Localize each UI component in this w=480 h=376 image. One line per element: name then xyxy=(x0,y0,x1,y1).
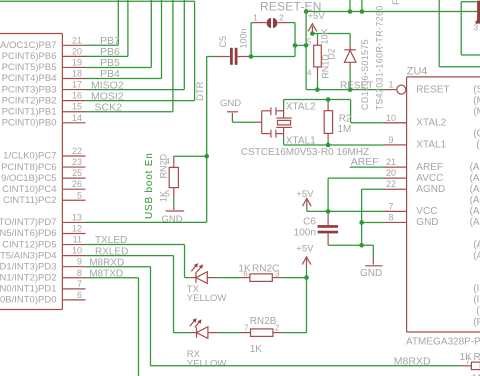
svg-text:100n: 100n xyxy=(294,227,316,238)
svg-text:7: 7 xyxy=(466,357,471,366)
svg-text:C5: C5 xyxy=(218,36,228,48)
svg-text:12: 12 xyxy=(72,223,82,233)
svg-text:AREF: AREF xyxy=(351,156,379,168)
svg-text:15: 15 xyxy=(72,102,82,112)
svg-text:18: 18 xyxy=(72,69,82,79)
svg-text:17: 17 xyxy=(72,80,82,90)
svg-text:100n: 100n xyxy=(239,28,249,48)
svg-text:C6: C6 xyxy=(303,217,316,228)
svg-text:5: 5 xyxy=(77,190,82,200)
svg-text:7: 7 xyxy=(77,279,82,289)
svg-text:9/OC1B)PC5: 9/OC1B)PC5 xyxy=(1,173,56,184)
svg-text:(P: (P xyxy=(473,317,480,328)
svg-text:TO/INT7)PD7: TO/INT7)PD7 xyxy=(0,217,57,228)
svg-text:2: 2 xyxy=(279,12,284,22)
svg-text:GND: GND xyxy=(220,98,241,109)
svg-text:ATMEGA328P-P: ATMEGA328P-P xyxy=(406,336,480,347)
svg-text:D1/INT3)PD3: D1/INT3)PD3 xyxy=(0,261,57,272)
svg-text:GND: GND xyxy=(162,214,183,225)
svg-text:4: 4 xyxy=(307,69,312,78)
svg-text:PCINT3)PB3: PCINT3)PB3 xyxy=(2,84,57,95)
svg-text:8: 8 xyxy=(77,268,82,278)
svg-text:PCINT2)PB2: PCINT2)PB2 xyxy=(2,95,57,106)
svg-text:(AD: (AD xyxy=(470,162,480,173)
svg-text:PCINT8)PC6: PCINT8)PC6 xyxy=(1,162,56,173)
svg-text:3: 3 xyxy=(473,23,478,33)
svg-text:D2: D2 xyxy=(327,48,337,60)
svg-text:(: ( xyxy=(476,140,480,151)
svg-text:(I: (I xyxy=(473,295,479,306)
svg-text:21: 21 xyxy=(72,35,82,45)
svg-text:+5V: +5V xyxy=(296,189,314,200)
svg-text:2: 2 xyxy=(275,323,280,332)
svg-text:22: 22 xyxy=(72,146,82,156)
svg-text:26: 26 xyxy=(72,179,82,189)
svg-text:N5/INT6)PD6: N5/INT6)PD6 xyxy=(0,228,57,239)
svg-text:DTR: DTR xyxy=(195,81,206,101)
svg-text:RN2B: RN2B xyxy=(250,316,277,327)
svg-text:CD1206-S01575: CD1206-S01575 xyxy=(360,39,370,110)
svg-text:20: 20 xyxy=(72,46,82,56)
svg-text:VCC: VCC xyxy=(416,206,437,217)
svg-text:N1/INT2)PD2: N1/INT2)PD2 xyxy=(0,272,57,283)
svg-text:(M: (M xyxy=(473,95,480,106)
svg-text:AVCC: AVCC xyxy=(416,173,443,184)
svg-text:(A: (A xyxy=(473,250,480,261)
svg-text:XTAL1: XTAL1 xyxy=(286,136,316,147)
svg-text:(AD: (AD xyxy=(470,173,480,184)
svg-text:6: 6 xyxy=(243,269,248,278)
svg-text:RN2D: RN2D xyxy=(158,153,168,178)
svg-text:TS42031-160R-TR-7260: TS42031-160R-TR-7260 xyxy=(375,5,385,110)
svg-text:19: 19 xyxy=(72,57,82,67)
svg-text:YELLOW: YELLOW xyxy=(187,293,227,304)
svg-text:T5/AIN3)PD4: T5/AIN3)PD4 xyxy=(0,250,57,261)
svg-text:1/CLK0)PC7: 1/CLK0)PC7 xyxy=(3,151,56,162)
svg-text:(I: (I xyxy=(473,284,479,295)
svg-text:20: 20 xyxy=(386,168,396,178)
svg-text:AREF: AREF xyxy=(416,162,443,173)
svg-text:A/OC1C)PB7: A/OC1C)PB7 xyxy=(0,40,57,51)
svg-text:9: 9 xyxy=(388,135,393,145)
svg-text:10: 10 xyxy=(72,246,82,256)
svg-text:SCK2: SCK2 xyxy=(95,101,123,113)
svg-text:0B/INT0)PD0: 0B/INT0)PD0 xyxy=(0,295,57,306)
svg-text:8: 8 xyxy=(388,212,393,222)
svg-text:F: F xyxy=(391,0,401,5)
svg-text:AGND: AGND xyxy=(416,184,445,195)
svg-text:XTAL1: XTAL1 xyxy=(416,140,446,151)
svg-text:PCINT6)PB6: PCINT6)PB6 xyxy=(2,51,57,62)
svg-text:XTAL2: XTAL2 xyxy=(286,102,316,113)
svg-text:PCINT0)PB0: PCINT0)PB0 xyxy=(2,117,57,128)
svg-text:14: 14 xyxy=(72,113,82,123)
svg-text:7: 7 xyxy=(388,201,393,211)
svg-text:(AD: (AD xyxy=(470,195,480,206)
svg-text:(: ( xyxy=(476,306,480,317)
svg-text:(AD: (AD xyxy=(470,217,480,228)
svg-text:+5V: +5V xyxy=(308,11,326,22)
svg-text:(A: (A xyxy=(473,239,480,250)
svg-text:10: 10 xyxy=(386,113,396,123)
svg-text:R2: R2 xyxy=(339,113,352,124)
svg-text:(AD: (AD xyxy=(470,184,480,195)
svg-text:25: 25 xyxy=(72,168,82,178)
svg-text:1: 1 xyxy=(388,80,393,90)
svg-text:(M: (M xyxy=(473,106,480,117)
svg-text:N0/INT1)PD1: N0/INT1)PD1 xyxy=(0,284,57,295)
svg-text:1M: 1M xyxy=(338,124,352,135)
svg-text:(AD: (AD xyxy=(470,206,480,217)
svg-text:PCINT4)PB4: PCINT4)PB4 xyxy=(2,73,57,84)
svg-text:CINT11)PC2: CINT11)PC2 xyxy=(3,195,57,206)
svg-text:+5V: +5V xyxy=(296,244,314,255)
svg-text:GND: GND xyxy=(360,268,382,279)
svg-text:1: 1 xyxy=(253,12,258,22)
svg-text:CINT10)PC4: CINT10)PC4 xyxy=(2,184,56,195)
svg-text:21: 21 xyxy=(386,157,396,167)
svg-text:1K: 1K xyxy=(250,344,263,355)
svg-text:CINT12)PD5: CINT12)PD5 xyxy=(2,239,56,250)
svg-text:RESET: RESET xyxy=(416,84,449,95)
svg-text:R: R xyxy=(474,352,480,363)
svg-text:1K: 1K xyxy=(158,191,168,202)
svg-text:GND: GND xyxy=(416,217,438,228)
svg-text:(S: (S xyxy=(473,84,480,95)
svg-text:USB boot En: USB boot En xyxy=(144,152,155,219)
svg-text:16: 16 xyxy=(72,91,82,101)
svg-text:23: 23 xyxy=(72,157,82,167)
svg-text:13: 13 xyxy=(72,212,82,222)
svg-text:ZU4: ZU4 xyxy=(407,66,428,78)
svg-text:9: 9 xyxy=(77,257,82,267)
svg-text:3: 3 xyxy=(275,269,280,278)
svg-text:7: 7 xyxy=(244,323,249,332)
svg-text:6: 6 xyxy=(77,290,82,300)
svg-text:M8RXD: M8RXD xyxy=(394,355,431,367)
svg-text:PCINT1)PB1: PCINT1)PB1 xyxy=(2,106,57,117)
svg-text:11: 11 xyxy=(73,235,82,245)
svg-text:10K: 10K xyxy=(319,28,329,44)
svg-text:5: 5 xyxy=(307,37,312,46)
svg-text:XTAL2: XTAL2 xyxy=(416,118,446,129)
svg-text:(C: (C xyxy=(473,129,480,140)
svg-text:22: 22 xyxy=(386,179,396,189)
svg-text:YELLOW: YELLOW xyxy=(187,359,227,370)
svg-text:PCINT5)PB5: PCINT5)PB5 xyxy=(2,62,57,73)
